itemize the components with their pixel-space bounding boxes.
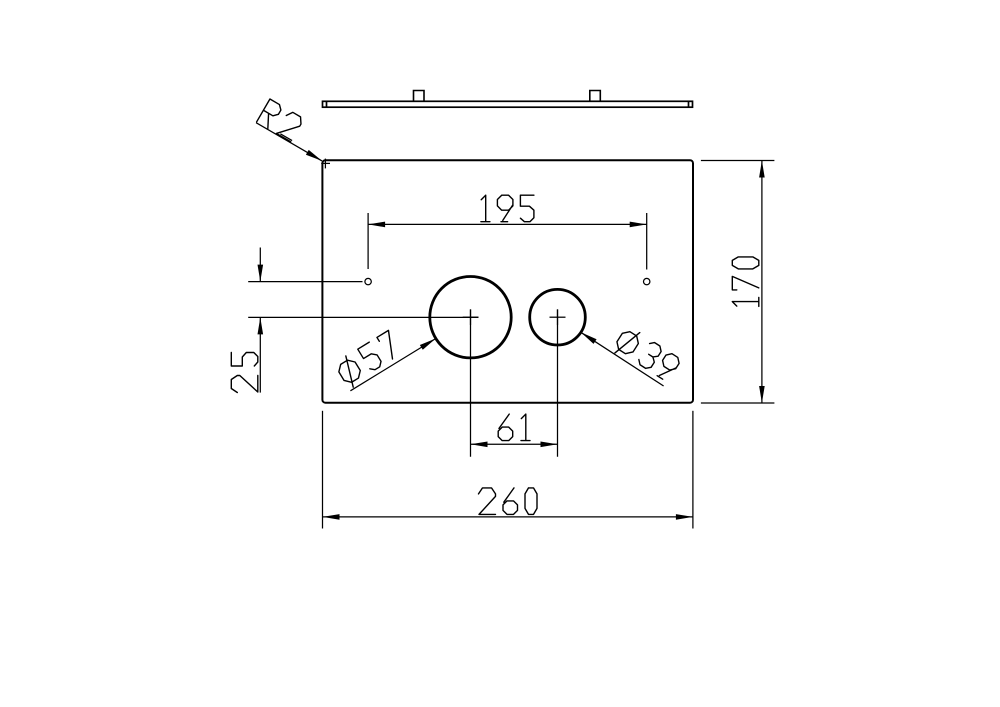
arrow leader R2 [306, 150, 324, 163]
text D39 [611, 325, 681, 385]
hole left [365, 278, 371, 284]
R2 text underline [280, 134, 292, 141]
leader R2 [256, 123, 322, 161]
leader D57 [350, 339, 435, 391]
dimension 25 [248, 248, 478, 393]
center mark big circle [463, 309, 479, 325]
clip right on profile [590, 91, 601, 102]
big circle D57 [430, 277, 511, 358]
text 195 [481, 195, 534, 222]
dimension 195 [368, 213, 647, 270]
arrow 61 left [471, 442, 488, 448]
text 61 [498, 414, 530, 441]
small circle D39 [530, 289, 586, 345]
corner fillet center mark [321, 159, 330, 169]
dimension 170 [701, 161, 775, 404]
top profile plate [323, 101, 693, 107]
arrow leader D57 [420, 336, 437, 350]
text R2 [257, 99, 304, 142]
dimension 260 [323, 411, 693, 529]
leader D39 [581, 332, 664, 386]
arrow 61 right [541, 442, 558, 448]
arrow 25 lower [258, 317, 264, 334]
arrow 25 upper [258, 265, 264, 282]
hole right [644, 278, 650, 284]
arrow 195 left [368, 222, 385, 228]
arrow 195 right [630, 222, 647, 228]
arrow 260 left [323, 514, 340, 520]
center mark small circle [550, 309, 566, 325]
arrow 170 bottom [759, 386, 765, 403]
text 260 [479, 488, 538, 515]
clip left on profile [414, 91, 425, 102]
arrow 170 top [759, 161, 765, 178]
main plate rectangle [322, 160, 693, 403]
arrow leader D39 [579, 330, 596, 344]
arrow 260 right [676, 514, 693, 520]
text D57 [334, 330, 405, 389]
text 170 [732, 257, 759, 307]
text 25 [231, 353, 258, 393]
dimension 61 [471, 309, 558, 456]
